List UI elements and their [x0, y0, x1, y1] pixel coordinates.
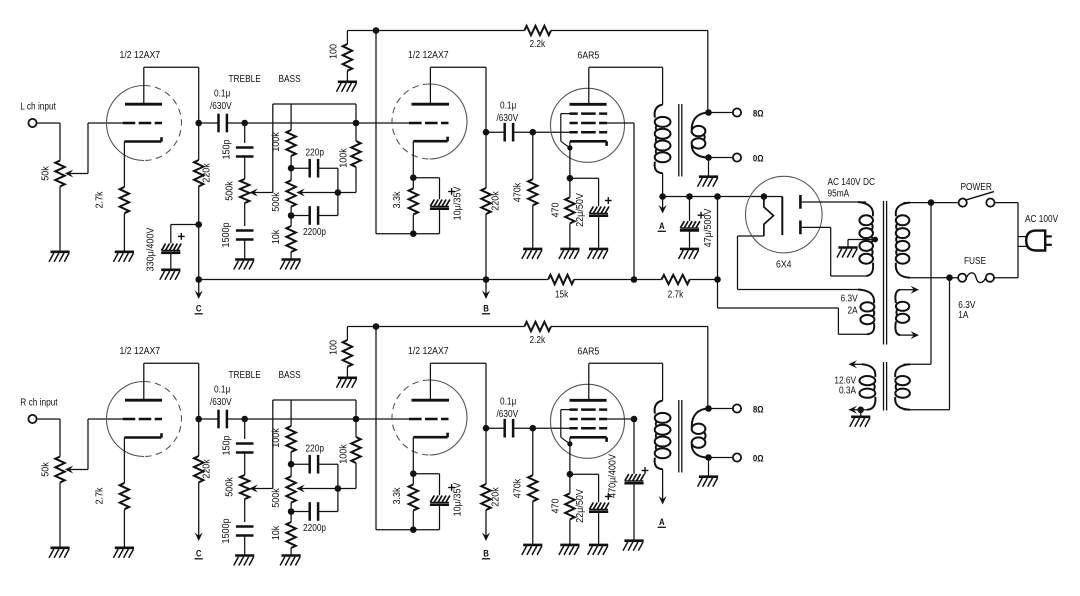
capacitor C 10u/35V L	[430, 200, 450, 209]
wire PT2 primary bottom lead	[904, 409, 950, 411]
inductor PT primary winding	[896, 203, 910, 278]
resistor 100k right L	[351, 141, 360, 167]
wire grid wire V2 L	[356, 122, 409, 124]
wire 50k bottom lead	[59, 187, 61, 252]
wire 500k to 1500p	[244, 203, 246, 226]
resistor bass pot 500k L	[286, 180, 295, 206]
node fuse node	[946, 274, 953, 281]
wire decouple to rail	[198, 225, 200, 280]
node 6AR5 grid node L	[530, 129, 537, 136]
wire 6AR5 plate lead up	[588, 67, 590, 104]
capacitor 2200p R	[310, 502, 318, 521]
wire cathode return	[376, 233, 440, 235]
wire NFB rail drop	[707, 327, 709, 409]
resistor NFB 2.2k R	[524, 322, 551, 331]
6X4 plate top	[799, 195, 802, 209]
wire OPT primary top lead	[662, 67, 664, 104]
svg-text:500k: 500k	[270, 192, 282, 212]
wire 1500p bottom lead	[244, 240, 246, 260]
heater arrow 12.6V bottom	[849, 406, 858, 414]
svg-text:470: 470	[550, 498, 562, 514]
node 6AR5 cathode node L	[567, 175, 574, 182]
wire 22u top lead	[598, 178, 600, 206]
wire V1 R plate wire top	[144, 362, 199, 364]
ground G5 bass R	[280, 556, 301, 566]
wire 220p right lead	[318, 167, 338, 169]
terminal power switch right	[986, 199, 994, 207]
tube envelope V1 R 1/2 12AX7	[107, 382, 182, 457]
capacitor 0.1u/630V L a	[219, 114, 227, 133]
svg-text:/630V: /630V	[210, 396, 232, 407]
svg-text:1/2 12AX7: 1/2 12AX7	[120, 345, 161, 357]
svg-text:2.2k: 2.2k	[530, 38, 546, 49]
wire 100ohm bottom lead	[346, 367, 348, 378]
wire wiper riser	[87, 419, 89, 470]
OPT core L	[679, 104, 682, 177]
resistor rail 15k	[548, 275, 574, 284]
node V1 L plate node	[195, 120, 202, 127]
wire 470k bottom lead	[532, 205, 534, 249]
wire HV CT lead a	[848, 239, 875, 241]
node V2 R plate node	[483, 425, 490, 432]
svg-text:C: C	[196, 548, 202, 559]
wire 150p to 500k	[244, 453, 246, 476]
wire 3.3k top lead	[412, 178, 414, 189]
capacitor C 470u/400V	[624, 474, 644, 483]
wire 10k top lead	[290, 216, 292, 227]
wire PT2 primary riser	[930, 203, 932, 365]
capacitor 1500p R	[236, 527, 254, 536]
svg-text:B: B	[483, 548, 489, 559]
wire 6AR5 cathode drop a	[569, 437, 571, 474]
svg-text:0Ω: 0Ω	[753, 453, 764, 464]
resistor bass pot 500k R	[286, 476, 295, 502]
resistor grid 470k R	[528, 475, 537, 501]
ground G11 OPT L	[698, 177, 719, 187]
wire B+ rail b	[574, 279, 662, 281]
wire primary bottom lead	[910, 277, 958, 279]
svg-text:100k: 100k	[338, 444, 350, 464]
6AR5 L cathode	[570, 141, 607, 146]
inductor PT2 primary winding	[895, 364, 910, 410]
svg-text:1500p: 1500p	[220, 518, 232, 543]
resistor cathode 470 L	[565, 197, 574, 223]
node V2 L cathode node	[410, 174, 417, 181]
wire heater 6.3V bottom a	[717, 280, 719, 309]
ground G9 470 L	[559, 249, 580, 259]
wire 3.3k bottom lead	[412, 215, 414, 234]
wire top rail drop	[355, 400, 357, 419]
label C 470u/400V plus sign	[642, 467, 649, 474]
wire heater 6.3V bottom d	[838, 333, 867, 335]
wire V1 R plate drop	[198, 363, 200, 419]
6AR5 L plate	[570, 103, 607, 106]
node C arrow L	[195, 280, 203, 300]
ground G4 treble L	[234, 260, 255, 270]
capacitor C 10u/35V R	[430, 496, 450, 505]
label C 22u/50V R plus sign	[605, 493, 612, 500]
PT2 core	[884, 362, 887, 411]
wire cap to treble node	[227, 122, 245, 124]
wire secondary ground lead	[708, 458, 710, 477]
node V2 R cathode node	[410, 470, 417, 477]
label C 10u/35V L plus sign	[448, 188, 455, 195]
wire OPT primary bottom lead R	[662, 469, 664, 487]
svg-text:8Ω: 8Ω	[753, 108, 764, 119]
wiper arrow 50k L	[65, 170, 88, 178]
resistor cathode 470 R	[565, 493, 574, 519]
node bass node1 R	[288, 461, 295, 468]
svg-text:8Ω: 8Ω	[753, 404, 764, 415]
capacitor 0.1u/630V R b	[505, 419, 513, 438]
label node A label L	[658, 220, 666, 231]
resistor plate load 220k2 L	[481, 188, 490, 214]
svg-text:330μ/400V: 330μ/400V	[145, 227, 157, 271]
resistor treble pot 500k R	[240, 475, 249, 499]
resistor cathode 2.7k L	[120, 187, 129, 213]
wire 330u bottom lead	[170, 254, 172, 270]
wire 10k top lead	[290, 512, 292, 523]
capacitor 0.1u/630V R a	[219, 410, 227, 429]
wire wiper node to 100k-right	[338, 488, 356, 490]
capacitor 1500p L	[236, 231, 254, 240]
node V2 L plate node	[483, 129, 490, 136]
6AR5 R plate	[570, 399, 607, 402]
label C 22u/50V L plus sign	[605, 197, 612, 204]
wire V2 R plate lead up	[429, 363, 431, 400]
wire 220p right lead	[318, 463, 338, 465]
wire bass pot bottom lead	[290, 207, 292, 216]
node power switch node	[928, 199, 935, 206]
inductor OPT primary L	[655, 105, 671, 174]
ground G3 330u	[160, 270, 181, 280]
wire cathode return	[376, 529, 440, 531]
wire 470k bottom lead	[532, 501, 534, 545]
6AR5 L control grid dashes	[570, 131, 608, 134]
capacitor C 47u/500V	[680, 221, 700, 230]
resistor NFB 100 R	[343, 340, 352, 367]
wiper arrow bass R	[296, 485, 338, 493]
wire V1 R cathode lead	[123, 438, 125, 484]
svg-text:FUSE: FUSE	[964, 255, 986, 266]
node bass wiper node L	[335, 189, 342, 196]
wire cathode to 22u	[570, 177, 599, 179]
terminal fuse right	[986, 274, 994, 282]
wire bass pot bottom lead	[290, 503, 292, 512]
wire 100k-right top lead	[355, 123, 357, 141]
ground G2 L	[113, 252, 134, 262]
node 6AR5 grid node R	[530, 425, 537, 432]
resistor grid 470k L	[528, 179, 537, 205]
ground G1 L	[49, 252, 70, 262]
inductor PT2 12.6V winding	[860, 364, 876, 410]
wire 470 bottom lead	[569, 223, 571, 249]
wire V2 L plate wire top	[430, 66, 486, 68]
terminal 8 ohm terminal R	[733, 404, 741, 412]
wire signal under tone	[248, 122, 356, 124]
svg-text:10k: 10k	[270, 230, 282, 245]
wire 100k-left to bass pot	[290, 452, 292, 464]
fuse element	[966, 273, 986, 283]
svg-text:6AR5: 6AR5	[578, 50, 600, 62]
svg-text:95mA: 95mA	[828, 188, 850, 199]
wiper arrow 50k R	[65, 466, 88, 474]
svg-text:2.7k: 2.7k	[94, 191, 106, 208]
ground G12 47u	[679, 249, 700, 259]
svg-text:220k: 220k	[490, 487, 502, 507]
tube envelope V1 L 1/2 12AX7	[107, 86, 182, 161]
ground G7 470k L	[522, 249, 543, 259]
svg-text:220k: 220k	[201, 459, 213, 479]
wire B+ rail a	[199, 279, 549, 281]
wire plate node to cap	[202, 122, 219, 124]
wire 470u bottom lead	[633, 483, 635, 540]
svg-text:A: A	[659, 516, 665, 527]
svg-text:100k: 100k	[270, 132, 282, 152]
ground G10 22u L	[588, 249, 609, 259]
svg-text:500k: 500k	[224, 477, 236, 497]
ground G2 R	[113, 548, 134, 558]
wire plate node to cap	[202, 418, 219, 420]
wire 330u top lead	[170, 225, 172, 244]
svg-text:6X4: 6X4	[776, 259, 792, 271]
svg-text:220k: 220k	[490, 191, 502, 211]
svg-text:/630V: /630V	[497, 112, 519, 123]
wire grid wire 6AR5	[533, 131, 570, 133]
wire 8ohm lead	[709, 112, 733, 114]
resistor bass 10k R	[286, 522, 295, 548]
wire treble chain top	[244, 123, 246, 143]
wire volume pot top lead	[59, 123, 61, 161]
wire 100ohm top lead	[346, 31, 348, 45]
node decoupling node	[195, 221, 202, 228]
svg-text:3.3k: 3.3k	[391, 487, 403, 504]
6AR5 R control grid dashes	[570, 427, 608, 430]
6AR5 L screen dashes	[570, 122, 608, 125]
wire V2 R plate drop	[485, 363, 487, 428]
wire NFB rail drop	[707, 31, 709, 113]
node NFB cathode node L	[410, 230, 417, 237]
wire 6AR5 plate wire	[589, 66, 663, 68]
node B+ node vert	[714, 193, 721, 200]
node bass node2 R	[288, 508, 295, 515]
wire plug stub bottom	[1018, 245, 1027, 247]
node screen node R	[631, 416, 638, 423]
svg-text:TREBLE: TREBLE	[229, 73, 261, 84]
node treble node L	[241, 120, 248, 127]
wire cap2 to 470k node	[513, 427, 533, 429]
label C 47u/500V plus sign	[698, 212, 705, 219]
wire 220p left lead	[291, 167, 310, 169]
wire 12.6V ground lead	[860, 410, 862, 417]
svg-text:0.1μ: 0.1μ	[214, 384, 230, 395]
svg-text:22μ/50V: 22μ/50V	[574, 193, 586, 227]
wire HV CT lead b	[847, 240, 849, 248]
wire 470 top lead	[569, 474, 571, 493]
svg-text:POWER: POWER	[961, 181, 993, 192]
svg-text:TREBLE: TREBLE	[229, 369, 261, 380]
node 6X4 cathode node	[761, 193, 768, 200]
terminal 0 ohm terminal L	[733, 153, 741, 161]
wire 220k-2 top lead	[485, 132, 487, 188]
wire treble chain top	[244, 419, 246, 439]
wire fuse to plug	[994, 277, 1018, 279]
wire cathode to 10u	[413, 177, 439, 179]
V1 R plate	[125, 399, 162, 402]
6X4 plate bottom	[799, 221, 802, 235]
svg-text:BASS: BASS	[279, 369, 301, 380]
svg-text:R ch input: R ch input	[20, 397, 58, 408]
wire cathode to 22u	[570, 473, 599, 475]
svg-text:220p: 220p	[306, 147, 324, 158]
wire V2 plate to cap2	[486, 427, 505, 429]
ground G14 12.6V	[850, 417, 871, 427]
wire 12.6V bottom lead	[853, 409, 867, 411]
resistor rail 2.7k	[662, 275, 690, 284]
wiper arrow bass L	[296, 189, 338, 197]
wire rail to B+ node	[717, 197, 719, 280]
wire heater 6X4 c	[738, 289, 862, 291]
wire 100k-left top lead	[290, 104, 292, 130]
ground G6 100ohm R	[336, 378, 357, 388]
svg-text:L ch input: L ch input	[20, 101, 56, 112]
wire treble wiper riser	[272, 400, 274, 489]
label C 10u/35V R plus sign	[448, 484, 455, 491]
6AR5 L suppressor dashes	[570, 112, 608, 115]
node 12.6V ground node	[857, 407, 864, 414]
node node B rail	[483, 276, 490, 283]
wire bass pot top lead	[290, 464, 292, 476]
node NFB rail node R	[373, 323, 380, 330]
wire 2200p left lead	[291, 215, 310, 217]
svg-text:1/2 12AX7: 1/2 12AX7	[120, 49, 161, 61]
wire 3.3k top lead	[412, 474, 414, 485]
node V2 grid node L	[353, 120, 360, 127]
wire 6AR5 plate wire	[589, 362, 663, 364]
svg-text:150p: 150p	[221, 435, 233, 455]
resistor NFB 100 L	[343, 44, 352, 71]
wire V1 L cathode lead	[123, 142, 125, 188]
PT core	[884, 201, 887, 345]
capacitor 220p L	[310, 159, 318, 178]
capacitor C 22u/50V R	[589, 503, 609, 512]
svg-text:2.7k: 2.7k	[668, 289, 684, 300]
terminal 0 ohm terminal R	[733, 453, 741, 461]
wire NFB rail b	[551, 326, 708, 328]
capacitor 150p L	[236, 148, 254, 157]
wire OPT primary bottom lead	[662, 173, 664, 196]
wire grid wire V2 R	[356, 418, 409, 420]
ground G1 R	[49, 548, 70, 558]
wire grid wire 6AR5	[533, 427, 570, 429]
svg-text:/630V: /630V	[210, 100, 232, 111]
wire 220k-2 bottom lead	[485, 214, 487, 280]
wire 3.3k bottom lead	[412, 511, 414, 530]
label node C label R	[195, 548, 203, 559]
svg-text:6AR5: 6AR5	[578, 346, 600, 358]
resistor cathode 2.7k R	[120, 483, 129, 509]
V2 L grid dashes	[409, 122, 449, 125]
tube envelope 6X4	[746, 176, 823, 253]
wire 50k bottom lead	[59, 483, 61, 548]
wire wiper node to 100k-right	[338, 192, 356, 194]
resistor treble pot 500k L	[240, 179, 249, 203]
svg-text:500k: 500k	[270, 488, 282, 508]
wire heater 6.3V bottom c	[837, 308, 839, 334]
capacitor 150p R	[236, 444, 254, 453]
resistor bass 10k L	[286, 226, 295, 252]
heater arrow 12.6V top	[849, 360, 863, 368]
V2 R plate	[412, 399, 450, 402]
wire cathode to 10u	[413, 473, 439, 475]
resistor plate load 220k R	[194, 456, 203, 482]
capacitor C 330u/400V	[161, 244, 181, 253]
ground G8 470u	[623, 541, 644, 551]
resistor plate load 220k L	[194, 160, 203, 186]
tube envelope 6AR5 L	[551, 88, 625, 162]
V1 L plate	[125, 103, 162, 106]
V2 L plate	[412, 103, 450, 106]
wire plug vertical	[1017, 203, 1019, 278]
wire 47u top lead	[689, 197, 691, 222]
node OPT 8ohm node R	[705, 405, 712, 412]
wire 100ohm top lead	[346, 327, 348, 341]
wire V1 L plate drop	[198, 67, 200, 123]
node OPT 0ohm node L	[705, 154, 712, 161]
svg-text:100: 100	[328, 43, 340, 59]
wire V1 R plate lead up	[143, 363, 145, 400]
wire secondary ground lead	[708, 158, 710, 177]
AC plug prong bottom	[1046, 244, 1051, 246]
node NFB cathode node R	[410, 526, 417, 533]
6AR5 R suppressor tie	[561, 410, 570, 444]
wire 2.7k bottom lead	[123, 213, 125, 252]
wire V2 R cathode lead	[412, 437, 414, 474]
resistor bass 100k left L	[286, 130, 295, 156]
V1 R cathode	[124, 433, 161, 437]
wire cap2 to 470k node	[513, 131, 533, 133]
svg-text:3.3k: 3.3k	[391, 191, 403, 208]
wire 470k top lead	[532, 428, 534, 475]
terminal power switch left	[959, 199, 967, 207]
wire 6X4 plate bottom lead b	[830, 227, 832, 276]
svg-text:2200p: 2200p	[303, 522, 326, 533]
node 6AR5 R cathode tie node	[567, 441, 572, 446]
svg-text:2.7k: 2.7k	[94, 487, 106, 504]
wire V2 plate to cap2	[486, 131, 505, 133]
svg-text:0Ω: 0Ω	[753, 153, 764, 164]
wire 470 top lead	[569, 178, 571, 197]
ground G11 OPT R	[698, 477, 719, 487]
wire 470 bottom lead	[569, 519, 571, 545]
6X4 filament	[764, 197, 774, 237]
wire 220k-1 bottom lead	[198, 482, 200, 520]
V1 L cathode	[124, 137, 161, 141]
resistor volume pot 50k R	[55, 457, 64, 483]
resistor bass 100k left R	[286, 426, 295, 452]
wire tone top rail	[273, 103, 356, 105]
svg-text:10μ/35V: 10μ/35V	[452, 482, 464, 516]
heater arrow 6.3V1A top	[900, 286, 919, 294]
capacitor 2200p L	[310, 206, 318, 225]
svg-text:1A: 1A	[958, 309, 969, 320]
svg-text:47μ/500V: 47μ/500V	[702, 208, 714, 247]
svg-text:0.3A: 0.3A	[839, 385, 857, 396]
resistor NFB 2.2k L	[524, 26, 551, 35]
label node A label R	[658, 516, 666, 527]
inductor PT 6.3V 2A winding	[858, 290, 874, 335]
node OPT 8ohm node L	[705, 109, 712, 116]
